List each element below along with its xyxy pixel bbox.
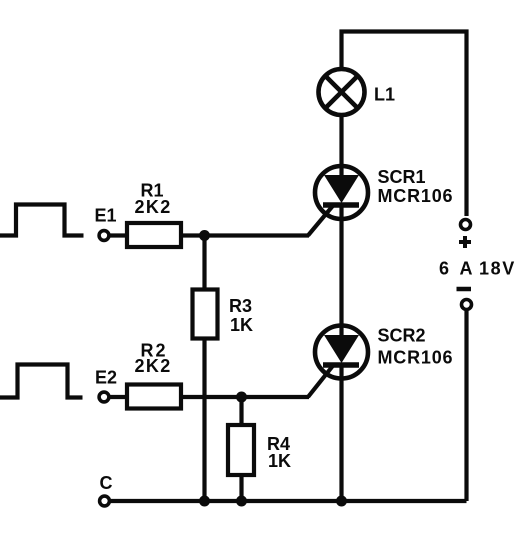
resistor R2 2K2 <box>127 385 181 409</box>
resistor R3 1K <box>193 290 218 339</box>
junction dot SCR2 cathode at bottom rail <box>336 496 347 507</box>
wire R2 to SCR2 gate <box>181 395 309 399</box>
wire SCR2 gate diagonal <box>308 365 334 397</box>
input waveform pulse E1 <box>0 205 84 236</box>
terminal C <box>100 496 110 506</box>
junction node R1 / R3 <box>199 230 210 241</box>
junction dot R4 at bottom rail <box>236 496 247 507</box>
wire R4 bottom to bottom rail <box>239 475 243 501</box>
svg-text:SCR2: SCR2 <box>378 326 426 346</box>
SCR U2 SCR2 MCR106 <box>315 326 368 379</box>
terminal E2 <box>99 392 109 402</box>
wire E1 terminal to R1 <box>110 233 127 237</box>
wire node to R4 top <box>239 397 243 425</box>
junction node R2 / R4 <box>236 392 247 403</box>
svg-text:R3: R3 <box>229 296 252 316</box>
svg-text:MCR106: MCR106 <box>378 186 454 206</box>
svg-text:E1: E1 <box>95 206 117 226</box>
svg-text:C: C <box>100 473 113 493</box>
wire bottom rail <box>110 499 467 503</box>
svg-text:1K: 1K <box>268 451 291 471</box>
wire node to R3 top <box>202 236 206 291</box>
resistor R4 1K <box>228 425 254 475</box>
svg-text:SCR1: SCR1 <box>378 167 426 187</box>
terminal E1 <box>99 231 109 241</box>
wire E2 terminal to R2 <box>110 395 127 399</box>
minus sign of supply <box>457 287 472 292</box>
svg-text:L1: L1 <box>374 85 395 105</box>
svg-text:2K2: 2K2 <box>135 356 172 376</box>
lamp L1 <box>319 69 365 115</box>
svg-text:2K2: 2K2 <box>135 197 172 217</box>
svg-text:MCR106: MCR106 <box>378 348 454 368</box>
terminal + positive supply <box>461 220 471 230</box>
wire SCR1 gate diagonal <box>308 205 334 236</box>
wire R3 bottom to bottom rail <box>202 338 206 501</box>
plus sign of supply <box>459 236 471 248</box>
wire lamp to SCR1 anode <box>339 115 343 178</box>
wire top rail <box>342 32 467 217</box>
svg-text:E2: E2 <box>95 368 117 388</box>
svg-text:1K: 1K <box>230 315 253 335</box>
wire right rail lower <box>464 311 468 501</box>
resistor R1 2K2 <box>127 223 181 247</box>
svg-text:6A18V: 6A18V <box>439 259 516 279</box>
SCR U1 SCR1 MCR106 <box>315 166 368 221</box>
wire R1 to SCR1 gate <box>183 233 309 237</box>
wire SCR2 cathode to bottom rail <box>339 365 343 501</box>
terminal - negative supply <box>462 300 472 310</box>
input waveform pulse E2 <box>0 365 83 398</box>
junction dot R3 at bottom rail <box>199 496 210 507</box>
wire SCR1 cathode to SCR2 anode <box>339 219 343 338</box>
